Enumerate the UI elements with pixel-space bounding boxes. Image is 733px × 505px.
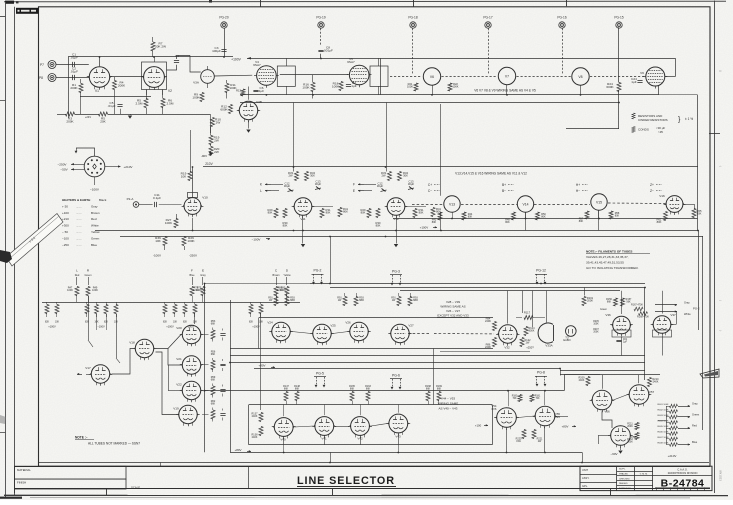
wire loop right of V5 bbox=[370, 66, 388, 86]
svg-text:80K: 80K bbox=[468, 216, 473, 219]
svg-text:L: L bbox=[260, 189, 262, 193]
svg-text:80K: 80K bbox=[283, 224, 288, 228]
resistor R402 ladder bbox=[670, 410, 678, 414]
svg-text:2.5M: 2.5M bbox=[167, 102, 174, 106]
finish box bbox=[15, 479, 127, 489]
bottom scale ruler bbox=[15, 488, 711, 490]
svg-text:80K: 80K bbox=[657, 220, 662, 224]
svg-text:SUPV.: SUPV. bbox=[619, 469, 626, 471]
svg-text:CINDER RESISTORS: CINDER RESISTORS bbox=[638, 118, 668, 122]
svg-text:66K: 66K bbox=[366, 387, 371, 390]
svg-text:R402 100K: R402 100K bbox=[658, 410, 669, 412]
svg-text:200K: 200K bbox=[587, 299, 593, 303]
svg-text:80K: 80K bbox=[326, 211, 331, 215]
wire box top drops bbox=[283, 405, 285, 417]
capacitor C 30uF right bbox=[409, 187, 413, 190]
svg-text:80K: 80K bbox=[505, 221, 510, 224]
tube V8 bbox=[572, 68, 589, 85]
svg-text:100K: 100K bbox=[452, 85, 458, 89]
right margin fold tick bbox=[709, 133, 720, 135]
svg-text:FINISH: FINISH bbox=[17, 480, 26, 484]
svg-text:800K: 800K bbox=[529, 330, 535, 333]
diagonal repair strip bbox=[6, 214, 63, 267]
svg-text:100K: 100K bbox=[165, 221, 173, 225]
tube V41 bbox=[315, 417, 334, 436]
svg-text:PASSED: PASSED bbox=[619, 482, 628, 485]
svg-text:1μF: 1μF bbox=[623, 341, 628, 343]
svg-text:F: F bbox=[191, 269, 193, 273]
label -100V below socket bbox=[94, 177, 96, 185]
resistor R148 66K bbox=[295, 392, 299, 401]
svg-text:E: E bbox=[353, 189, 355, 193]
svg-text:V26 − V27: V26 − V27 bbox=[446, 309, 460, 313]
resistor above V12 left bbox=[388, 172, 392, 181]
svg-text:R408 100K: R408 100K bbox=[658, 443, 669, 445]
svg-text:V17: V17 bbox=[85, 366, 91, 370]
svg-text:66K: 66K bbox=[295, 387, 300, 390]
paper top edge line bbox=[4, 0, 726, 3]
svg-text:V43: V43 bbox=[395, 435, 401, 439]
svg-text:WIRING SAME AS: WIRING SAME AS bbox=[440, 305, 465, 309]
resistor R22 100K bbox=[448, 83, 452, 91]
paper edge marks top-left bbox=[5, 1, 14, 4]
svg-text:PG-20: PG-20 bbox=[219, 16, 228, 20]
svg-text:2W: 2W bbox=[214, 139, 219, 143]
capacitor R53C bbox=[220, 333, 225, 335]
svg-text:15Ω: 15Ω bbox=[516, 440, 521, 443]
dashed wire through tubes bbox=[390, 76, 422, 78]
resistor R47 100K bbox=[75, 287, 79, 296]
svg-text:66K: 66K bbox=[211, 379, 216, 382]
wire band bottom bus bbox=[230, 355, 645, 357]
svg-text:−60V: −60V bbox=[610, 452, 617, 456]
svg-text:.01μF: .01μF bbox=[70, 70, 78, 74]
svg-text:200K: 200K bbox=[627, 425, 633, 428]
resistor V11 right2 bbox=[338, 208, 342, 217]
svg-text:100K: 100K bbox=[187, 239, 195, 243]
output arrows Gray White PG-2 bbox=[655, 304, 677, 306]
wire V11 grid left bbox=[271, 184, 283, 186]
resistor R211 200K bbox=[635, 423, 639, 430]
resistor R122 bbox=[520, 338, 524, 347]
svg-text:CHECKED: CHECKED bbox=[619, 478, 630, 480]
left margin column black header box bbox=[16, 8, 39, 14]
triode V3A bbox=[201, 70, 215, 84]
right margin line bbox=[714, 1, 716, 494]
svg-text:V56: V56 bbox=[604, 410, 610, 414]
triode V1 bbox=[89, 67, 109, 87]
svg-text:RADIOPHONICS DIVISION: RADIOPHONICS DIVISION bbox=[668, 472, 698, 475]
svg-text:200K: 200K bbox=[118, 84, 126, 88]
svg-text:+300: +300 bbox=[62, 224, 69, 228]
wire C5 down bbox=[120, 109, 122, 114]
resistor R65 80K bbox=[692, 209, 696, 218]
resistor R209 240K bbox=[586, 377, 590, 386]
tube V42 bbox=[351, 417, 370, 436]
legend resistors tolerance bbox=[632, 113, 635, 119]
svg-text:-250V: -250V bbox=[189, 254, 197, 258]
svg-text:V36: V36 bbox=[605, 313, 611, 317]
resistor R5A 2.5M bbox=[144, 99, 148, 108]
wire V37 drop bbox=[662, 336, 664, 356]
title strip top line bbox=[15, 466, 711, 468]
wire drops to bottom bus bbox=[330, 452, 332, 462]
svg-text:Blue: Blue bbox=[692, 440, 698, 444]
capacitor C 30uF left bbox=[382, 189, 386, 192]
svg-text:100K: 100K bbox=[192, 96, 200, 100]
svg-text:·|: ·| bbox=[719, 165, 723, 167]
svg-text:.01μF: .01μF bbox=[108, 104, 116, 108]
svg-text:100K: 100K bbox=[407, 85, 413, 89]
svg-text:240K: 240K bbox=[579, 379, 585, 382]
svg-text:Brown: Brown bbox=[91, 211, 100, 215]
wire V17 left arrow bbox=[77, 374, 82, 376]
svg-text:+80V: +80V bbox=[234, 448, 241, 452]
tube V13 bbox=[444, 196, 460, 212]
svg-text:66K: 66K bbox=[607, 300, 612, 303]
svg-text:Red: Red bbox=[91, 217, 97, 221]
title table col lines bbox=[616, 466, 618, 490]
bus band bottom pair bbox=[230, 362, 645, 364]
svg-text:82K: 82K bbox=[85, 322, 90, 324]
wire V4-V3B bbox=[248, 87, 250, 100]
resistor R169 66K bbox=[437, 392, 441, 401]
svg-text:Black: Black bbox=[99, 198, 107, 202]
resistor R6 2.5M bbox=[161, 99, 165, 108]
svg-text:+80V: +80V bbox=[562, 425, 569, 429]
wire V9 right bbox=[665, 76, 676, 78]
bus mid lower 2 bbox=[120, 236, 703, 238]
svg-text:........: ........ bbox=[76, 231, 82, 234]
tube V37 bbox=[653, 316, 671, 334]
svg-text:600K: 600K bbox=[220, 108, 228, 112]
wire V3A in bbox=[190, 56, 201, 73]
resistor R101 200K bbox=[582, 297, 586, 306]
tube V9 bbox=[646, 67, 665, 86]
svg-text:100K: 100K bbox=[593, 323, 599, 325]
svg-text:1μF: 1μF bbox=[259, 89, 265, 93]
svg-text:−100V: −100V bbox=[252, 238, 261, 242]
tube V11 bbox=[294, 198, 312, 216]
svg-text:UN1023: UN1023 bbox=[719, 470, 723, 481]
svg-text:6BR: 6BR bbox=[359, 299, 364, 302]
svg-text:+100V: +100V bbox=[231, 57, 241, 61]
tube V55 6V6 bbox=[535, 406, 555, 426]
svg-text:PG-18: PG-18 bbox=[408, 16, 417, 20]
svg-text:Gray: Gray bbox=[692, 402, 698, 406]
svg-text:AS V40 − V43: AS V40 − V43 bbox=[439, 407, 458, 411]
resistor R157 56K bbox=[621, 298, 625, 306]
svg-text:L: L bbox=[76, 269, 78, 273]
resistor pair at 399 bbox=[397, 297, 401, 306]
svg-text:V12: V12 bbox=[393, 217, 399, 221]
wire verticals V32 cluster bbox=[507, 291, 509, 324]
bus above frame bottom bbox=[39, 462, 709, 464]
svg-text:80K: 80K bbox=[615, 215, 620, 218]
svg-text:10K: 10K bbox=[55, 322, 60, 324]
capacitor C11 0.1uF bbox=[154, 202, 156, 207]
wire V55 drop bbox=[544, 427, 546, 452]
wire bottom row 1 bbox=[57, 114, 66, 116]
svg-text:Gray: Gray bbox=[684, 301, 690, 305]
left edge ticks bbox=[0, 16, 6, 18]
svg-text:||: || bbox=[719, 70, 723, 72]
svg-text:V6 V7 V8 & V9 WIRING SAME A: V6 V7 V8 & V9 WIRING SAME AS V4 & V5 bbox=[474, 89, 536, 93]
svg-text:240K: 240K bbox=[252, 436, 258, 439]
wire PG-17 drop dashed bbox=[488, 28, 490, 74]
svg-text:210V: 210V bbox=[205, 162, 213, 166]
svg-text:+100V: +100V bbox=[166, 325, 174, 329]
wire V2 out bbox=[167, 65, 177, 70]
svg-text:−250: −250 bbox=[62, 243, 69, 247]
wire V55 right bbox=[556, 416, 568, 418]
svg-text:V15: V15 bbox=[596, 200, 602, 204]
svg-text:V44 − V53: V44 − V53 bbox=[441, 397, 455, 401]
outer box lower band bbox=[205, 390, 565, 392]
svg-text:PG-16: PG-16 bbox=[557, 16, 566, 20]
resistor R407 ladder bbox=[670, 437, 678, 441]
svg-text:V11: V11 bbox=[300, 217, 306, 221]
svg-text:B−: B− bbox=[502, 189, 506, 193]
svg-text:-90V: -90V bbox=[201, 154, 207, 158]
resistor R212 200K bbox=[635, 433, 639, 440]
resistor R18 bbox=[339, 82, 343, 91]
resistor R7 20K 2W bbox=[151, 42, 155, 51]
svg-text:GO TO ISOLATING TRANSFORMER.: GO TO ISOLATING TRANSFORMER. bbox=[586, 266, 639, 270]
svg-text:........: ........ bbox=[76, 218, 82, 221]
svg-text:........: ........ bbox=[76, 205, 82, 208]
title table mid col rows bbox=[617, 471, 653, 473]
wire V12 feed bbox=[386, 103, 388, 172]
mixer tube V4 6SA7 bbox=[257, 66, 277, 86]
svg-text:240K: 240K bbox=[485, 319, 491, 323]
resistor R55 bank2 bbox=[193, 305, 197, 314]
svg-text:V26: V26 bbox=[345, 321, 351, 325]
svg-text:R405 100K: R405 100K bbox=[658, 426, 669, 428]
resistor above V11 right bbox=[305, 172, 309, 181]
svg-text:R404 100K: R404 100K bbox=[658, 421, 669, 423]
title table left col rows bbox=[580, 474, 617, 476]
svg-text:80K: 80K bbox=[697, 212, 702, 216]
svg-text:2.5M: 2.5M bbox=[136, 102, 143, 106]
resistor R167 470K bbox=[634, 307, 643, 311]
wire R19 drop bbox=[190, 130, 192, 172]
svg-text:66K: 66K bbox=[350, 387, 355, 390]
svg-text:100K: 100K bbox=[332, 85, 340, 89]
wire lower tube drops bbox=[283, 438, 285, 445]
svg-text:UNIT: UNIT bbox=[582, 468, 588, 472]
resistor R408 ladder bbox=[670, 443, 678, 447]
svg-text:V40: V40 bbox=[280, 438, 286, 442]
resistor R81 100K bbox=[285, 287, 289, 296]
resistor V11 left2 bbox=[283, 209, 287, 218]
svg-text:+210V: +210V bbox=[123, 165, 133, 169]
svg-text:........: ........ bbox=[76, 212, 82, 215]
wire ladder trunk bbox=[666, 406, 668, 445]
svg-text:EABO: EABO bbox=[563, 338, 570, 342]
wire V2 cathodes bbox=[146, 90, 148, 96]
wire P7 to C1 bbox=[56, 64, 89, 66]
wire V3A to V4 bbox=[214, 74, 252, 77]
svg-text:80K: 80K bbox=[361, 211, 366, 215]
svg-text:80K: 80K bbox=[541, 216, 546, 219]
svg-text:R13: R13 bbox=[236, 89, 241, 93]
svg-text:80K: 80K bbox=[432, 221, 437, 224]
svg-text:10K: 10K bbox=[173, 322, 178, 324]
svg-text:V21: V21 bbox=[176, 357, 182, 361]
svg-text:6SA7: 6SA7 bbox=[347, 60, 355, 64]
svg-text:V41: V41 bbox=[321, 437, 327, 441]
ground V11 bbox=[301, 244, 305, 247]
bank mid wire bbox=[42, 302, 300, 304]
paper bottom edge bbox=[4, 494, 728, 496]
wire V17-V18 bbox=[112, 349, 134, 375]
resistor above V12 right bbox=[398, 172, 402, 181]
resistor R62 66K bbox=[211, 410, 215, 419]
wire PG-15 drop bbox=[618, 27, 620, 82]
tube V7 bbox=[498, 67, 515, 84]
svg-text:V8: V8 bbox=[578, 75, 582, 79]
svg-text:80K: 80K bbox=[268, 211, 273, 215]
wire V14 drop bbox=[525, 212, 527, 230]
svg-text:66K: 66K bbox=[284, 387, 289, 390]
svg-text:100μF: 100μF bbox=[212, 49, 221, 53]
wire top drops to bus bbox=[432, 85, 434, 95]
capacitor below V36 bbox=[616, 340, 621, 342]
lower band box bbox=[249, 404, 492, 406]
svg-text:R167 470K: R167 470K bbox=[631, 304, 643, 307]
wire right trunk down bbox=[697, 95, 699, 230]
resistor R168 470K bbox=[639, 312, 648, 316]
drawing number B-24784 bbox=[653, 475, 712, 477]
resistor R53 bank2 bbox=[173, 305, 177, 314]
svg-text:PG-5: PG-5 bbox=[316, 372, 324, 376]
svg-text:+210V: +210V bbox=[668, 454, 677, 458]
svg-text:66K: 66K bbox=[211, 403, 216, 406]
resistor R46 bank2 bbox=[45, 305, 49, 314]
resistor R57 80K under V15 bbox=[585, 211, 589, 219]
svg-text:P7: P7 bbox=[40, 63, 44, 67]
band frame lines bbox=[259, 317, 493, 319]
svg-text:V3A: V3A bbox=[193, 81, 200, 85]
svg-text:6BR: 6BR bbox=[290, 299, 295, 302]
svg-text:20K 2W: 20K 2W bbox=[155, 45, 166, 49]
resistor R181 70K bbox=[530, 395, 534, 402]
resistor above V11 left bbox=[295, 172, 299, 181]
svg-text:82K: 82K bbox=[249, 322, 254, 324]
svg-text:V. M. M.: V. M. M. bbox=[640, 474, 648, 476]
svg-text:V25: V25 bbox=[330, 324, 336, 328]
svg-text:82K: 82K bbox=[104, 322, 109, 324]
ground V12 bbox=[394, 244, 398, 247]
resistor R86 240K bbox=[493, 338, 497, 347]
resistor R51 bank2 bbox=[114, 305, 118, 314]
svg-text:V19: V19 bbox=[173, 407, 179, 411]
bank drop wires bbox=[88, 296, 90, 341]
svg-text:Green: Green bbox=[692, 413, 700, 417]
resistor R10 2W bbox=[211, 118, 215, 127]
wire V11 out bbox=[313, 206, 333, 208]
bus mid lower 1 bbox=[95, 230, 698, 232]
svg-text:.001μF: .001μF bbox=[323, 49, 333, 53]
svg-text:+100V: +100V bbox=[252, 325, 260, 329]
svg-text:EXCEPT V32 AND V33: EXCEPT V32 AND V33 bbox=[437, 314, 469, 318]
wire V16 right bbox=[684, 204, 695, 206]
resistor R117 horizontal bbox=[524, 316, 533, 320]
resistor R19 2W bbox=[209, 136, 213, 145]
resistor V12 left2 bbox=[376, 209, 380, 218]
wire band left trunk bbox=[330, 236, 332, 284]
svg-text:240K: 240K bbox=[252, 415, 258, 418]
svg-text:30μF: 30μF bbox=[408, 182, 415, 186]
svg-text:V28 − V39: V28 − V39 bbox=[446, 300, 460, 304]
wire V1 to V2 bbox=[110, 76, 143, 78]
svg-text:+ 50: + 50 bbox=[62, 204, 68, 208]
resistor R147 66K bbox=[284, 392, 288, 401]
svg-text:GPL.: GPL. bbox=[582, 484, 588, 488]
svg-text:B+: B+ bbox=[502, 183, 506, 187]
svg-text:PG-17: PG-17 bbox=[483, 16, 492, 20]
wire lower tubes bbox=[295, 426, 314, 427]
svg-text:R406 100K: R406 100K bbox=[658, 432, 669, 434]
svg-text:V13: V13 bbox=[449, 202, 455, 206]
svg-text:V6: V6 bbox=[430, 75, 434, 79]
wire P2A to C11 bbox=[139, 204, 153, 206]
tube V36 cap box bbox=[612, 330, 631, 337]
wire V58 left bbox=[598, 435, 609, 437]
svg-text:-100V: -100V bbox=[153, 254, 161, 258]
svg-text:PG-6: PG-6 bbox=[392, 374, 400, 378]
resistor R9 100K bbox=[200, 93, 204, 102]
tube V26 bbox=[350, 322, 368, 340]
wire V11 feed bbox=[293, 103, 295, 172]
svg-text:.01μF: .01μF bbox=[70, 56, 78, 60]
svg-text:100K: 100K bbox=[67, 289, 73, 292]
resistor R220 bbox=[522, 430, 526, 439]
svg-text:H+: H+ bbox=[576, 183, 580, 187]
wire V12 cathode bbox=[396, 217, 398, 244]
resistor R53 66K bbox=[211, 330, 215, 339]
svg-text:PG-2: PG-2 bbox=[314, 269, 322, 273]
capacitor C 30uF left bbox=[289, 189, 293, 192]
svg-text:30K: 30K bbox=[310, 174, 315, 178]
resistor R221 bbox=[532, 430, 536, 439]
svg-text:R168 470K: R168 470K bbox=[637, 316, 649, 319]
resistor R59 66K bbox=[211, 386, 215, 395]
label 210V right bbox=[105, 166, 118, 168]
tube V25 bbox=[313, 324, 331, 342]
svg-text:10K: 10K bbox=[181, 175, 187, 179]
resistor R137 240K bbox=[259, 413, 263, 422]
svg-text:1μF: 1μF bbox=[631, 80, 637, 84]
wiring box left edge V6 row bbox=[380, 58, 382, 95]
resistor R27 100K bbox=[174, 219, 178, 228]
svg-text:66K: 66K bbox=[211, 323, 216, 326]
resistor R16 100K bbox=[311, 83, 315, 92]
resistor R43 80K under V13 bbox=[438, 212, 442, 220]
svg-text:2W: 2W bbox=[526, 342, 530, 345]
svg-text:± 1 %: ± 1 % bbox=[685, 117, 693, 121]
capacitor C 30uF right bbox=[316, 187, 320, 190]
bus 80V bbox=[254, 368, 560, 370]
svg-text:WIRING SAME: WIRING SAME bbox=[438, 402, 459, 406]
dashed bus to V32 bbox=[408, 333, 430, 335]
ink blob left margin bbox=[0, 250, 12, 263]
resistor R5 20K bbox=[99, 112, 108, 116]
bus above band bbox=[310, 283, 645, 285]
wire V10 up to 210V bus bbox=[192, 167, 194, 198]
pentode V2 grid box bbox=[142, 62, 167, 90]
